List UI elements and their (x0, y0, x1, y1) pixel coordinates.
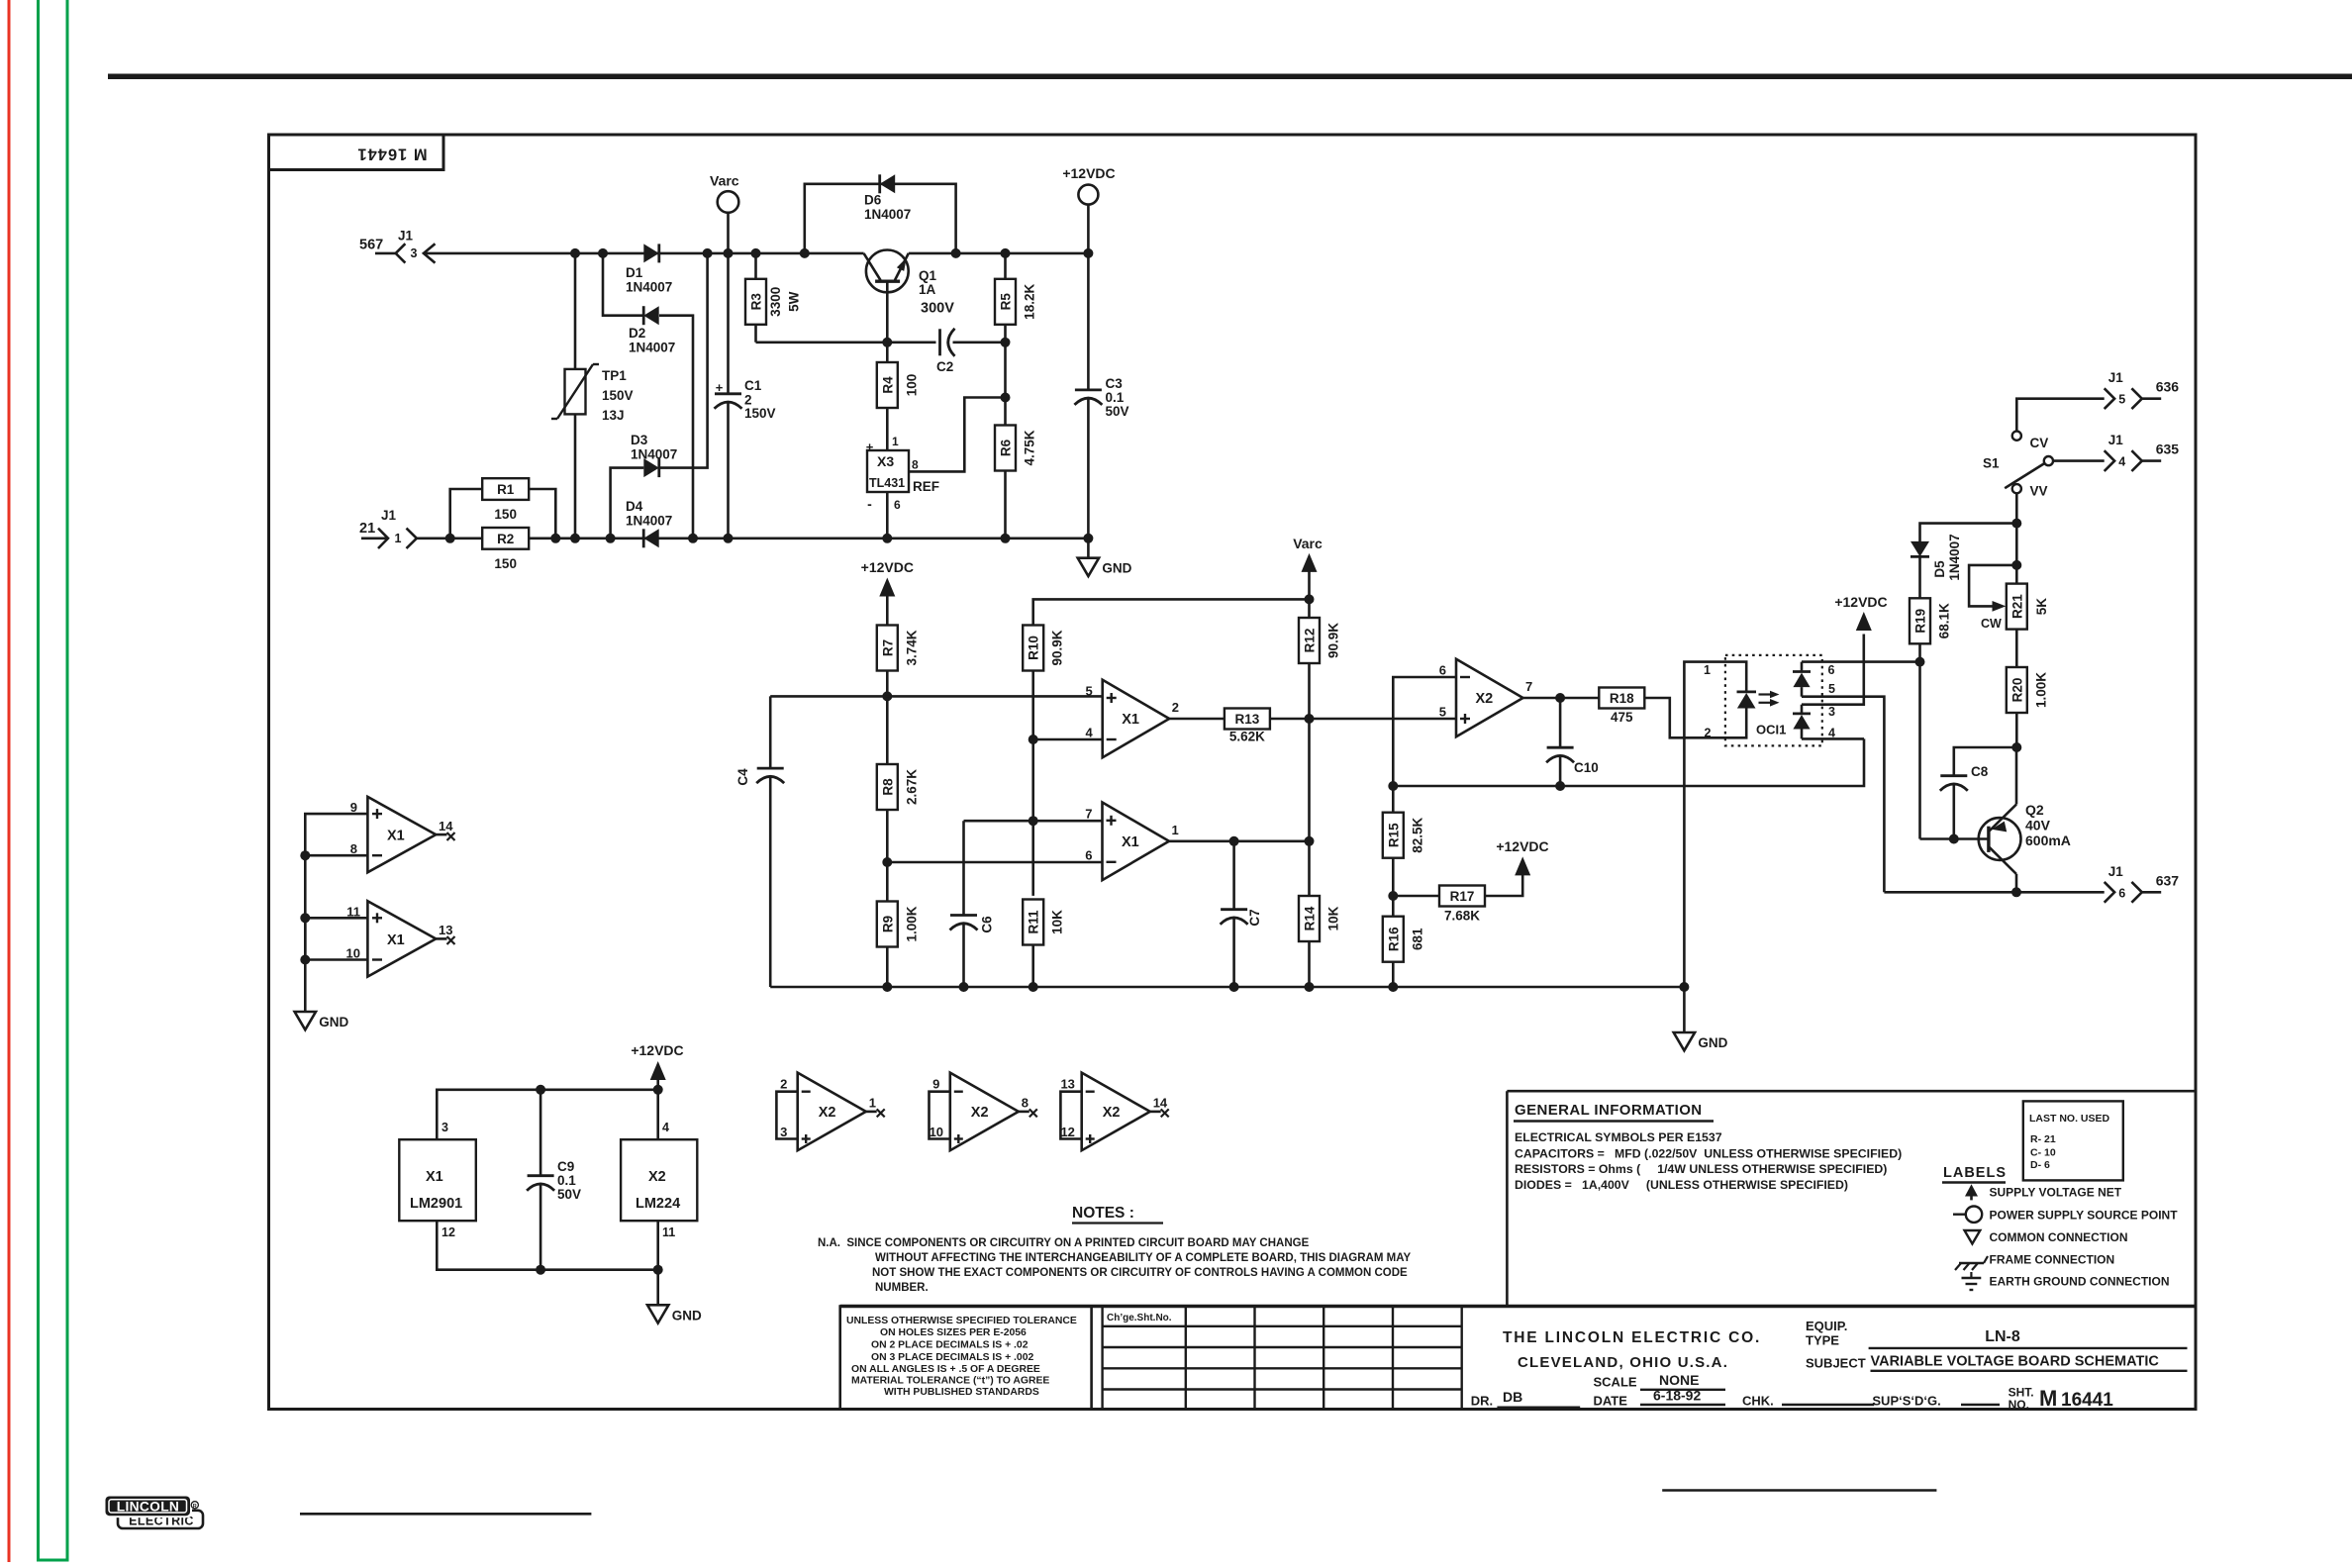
IC X2 LM224 power block (621, 1139, 697, 1221)
wire: X1b pin 6 row (887, 861, 1102, 864)
svg-text:14: 14 (439, 819, 453, 833)
connector J1 pin 6, net 637 (2105, 882, 2114, 903)
wire: OCI1 pin 5 to output row (1802, 697, 1884, 893)
svg-text:COMMON CONNECTION: COMMON CONNECTION (1990, 1230, 2128, 1244)
junction (882, 857, 892, 867)
svg-text:R10: R10 (1027, 636, 1041, 660)
wire: power rail bottom (437, 1221, 657, 1270)
svg-text:8: 8 (912, 458, 919, 472)
general information box (1506, 1091, 1509, 1306)
svg-text:1N4007: 1N4007 (629, 341, 675, 355)
junction (703, 248, 713, 258)
svg-text:FRAME CONNECTION: FRAME CONNECTION (1990, 1253, 2115, 1267)
svg-text:J1: J1 (2108, 864, 2124, 879)
wire: to ground (656, 1270, 659, 1306)
svg-text:Varc: Varc (1293, 536, 1323, 551)
wire: R12/R14 column (1308, 599, 1311, 987)
svg-text:-: - (867, 496, 872, 512)
svg-text:5.62K: 5.62K (1229, 730, 1265, 744)
wire: D2 branch (603, 253, 643, 316)
junction (1305, 836, 1315, 846)
resistor R5 (995, 279, 1016, 325)
wire: X1b output row (1169, 839, 1310, 842)
wire: C2 right to R5/R6 node (953, 341, 1006, 343)
wire: CV contact to J1-5 (2016, 399, 2104, 432)
svg-text:14: 14 (1153, 1096, 1168, 1111)
svg-text:GENERAL INFORMATION: GENERAL INFORMATION (1515, 1102, 1703, 1119)
junction (1305, 982, 1315, 992)
legend: common connection (1965, 1230, 1981, 1244)
svg-text:3: 3 (411, 246, 418, 260)
wire: R5/R6 column (1004, 253, 1007, 539)
resistor R3 (745, 279, 766, 325)
photodiode (OCI1 upper, pins 6-5) (1793, 670, 1811, 673)
varistor TP1 (565, 369, 586, 415)
svg-text:2.67K: 2.67K (904, 769, 919, 805)
svg-text:3: 3 (441, 1121, 448, 1134)
resistor R16 (1383, 917, 1404, 962)
junction (598, 248, 608, 258)
junction (724, 534, 734, 543)
junction (653, 1265, 663, 1275)
legend: supply voltage net (1965, 1184, 1978, 1196)
wire: TP1 column (574, 253, 577, 539)
svg-text:5K: 5K (2034, 598, 2049, 616)
capacitor C6 (950, 914, 977, 917)
op-amp X1 spare gate (pins 11,10 out 13) (367, 901, 436, 976)
optocoupler OCI1 outline (dotted) (1725, 655, 1822, 746)
svg-text:4.75K: 4.75K (1023, 430, 1037, 465)
svg-text:CW: CW (1981, 617, 2002, 631)
svg-text:21: 21 (359, 521, 375, 537)
svg-text:R7: R7 (880, 639, 895, 656)
svg-text:DR.: DR. (1471, 1394, 1493, 1409)
junction (724, 248, 734, 258)
wire: X1 spare gate A inputs (305, 814, 367, 855)
wire: X3 pin 6 to bottom rail (886, 492, 889, 539)
svg-text:C4: C4 (735, 768, 750, 786)
svg-text:5: 5 (1085, 684, 1092, 699)
junction (1001, 248, 1011, 258)
svg-text:681: 681 (1410, 928, 1424, 950)
svg-text:M 16441: M 16441 (356, 146, 427, 163)
svg-text:+12VDC: +12VDC (861, 559, 914, 575)
wire: power rail top (437, 1090, 657, 1139)
svg-text:J1: J1 (398, 229, 414, 244)
svg-text:1: 1 (892, 435, 899, 448)
svg-text:40V: 40V (2025, 818, 2051, 833)
resistor R20 (2007, 667, 2027, 713)
resistor R1 (482, 478, 529, 500)
capacitor C7 (1221, 908, 1247, 911)
svg-text:ON ALL ANGLES IS + .5 OF: ON ALL ANGLES IS + .5 OF A DEGREE (851, 1364, 1040, 1375)
svg-text:D6: D6 (864, 193, 882, 208)
wire: R7-R8 column (886, 671, 889, 863)
wire: OCI1 LED input loop (pins 1-2) (1684, 662, 1746, 738)
wire: tied inputs (1060, 1092, 1081, 1139)
svg-text:R20: R20 (2009, 678, 2024, 703)
svg-text:C9: C9 (557, 1159, 574, 1174)
svg-text:567: 567 (359, 238, 383, 253)
diode D3 (643, 458, 659, 477)
svg-text:R5: R5 (999, 293, 1014, 311)
wire: C7 branch lower (1232, 918, 1235, 987)
svg-text:+: + (866, 440, 874, 454)
capacitor C4 (757, 767, 784, 770)
svg-text:C1: C1 (744, 378, 762, 393)
junction (536, 1265, 545, 1275)
junction (536, 1085, 545, 1095)
wire: tied inputs (930, 1092, 950, 1139)
wire: Q2 emitter to node (2015, 747, 2018, 805)
wire: VV to R21 (2015, 493, 2018, 583)
resistor R15 (1383, 813, 1404, 858)
ground GND (spare gates) (295, 1012, 316, 1029)
junction (882, 534, 892, 543)
wire: X1a output to R13 (1169, 718, 1225, 721)
junction (570, 248, 580, 258)
op-amp X2 (main) (1456, 659, 1523, 737)
legend: earth ground connection (1970, 1272, 1972, 1278)
svg-text:150V: 150V (602, 388, 634, 403)
junction (1555, 781, 1565, 791)
diode D6 (880, 174, 896, 193)
diode D2 (643, 306, 659, 325)
wire: X1a pin 5 row (770, 695, 1102, 698)
svg-text:TL431: TL431 (869, 476, 905, 490)
svg-text:GND: GND (319, 1015, 348, 1029)
resistor R14 (1299, 896, 1320, 941)
wire: +12VDC to R7 (886, 596, 889, 626)
wire: OCI1 pin 4 rail (1802, 737, 1864, 740)
svg-text:6: 6 (1085, 847, 1092, 862)
svg-text:LINCOLN: LINCOLN (117, 1500, 179, 1515)
junction (688, 534, 698, 543)
wire: C10 lower (1559, 755, 1562, 786)
rule lower right (1662, 1489, 1936, 1492)
svg-text:NOTES :: NOTES : (1072, 1205, 1134, 1222)
svg-text:R14: R14 (1303, 906, 1318, 931)
wire: C6 branch lower (962, 924, 965, 987)
junction (1305, 594, 1315, 604)
svg-text:R9: R9 (880, 916, 895, 932)
svg-text:13J: 13J (602, 408, 625, 423)
svg-text:GND: GND (1102, 561, 1131, 576)
svg-text:SUBJECT: SUBJECT (1806, 1356, 1866, 1371)
wire: Varc / C1 column upper (727, 213, 730, 394)
ground GND (power pins) (647, 1305, 668, 1323)
svg-text:+12VDC: +12VDC (631, 1042, 683, 1058)
svg-text:NUMBER.: NUMBER. (875, 1282, 929, 1294)
svg-text:DB: DB (1503, 1389, 1522, 1405)
svg-text:X1: X1 (387, 829, 405, 844)
op-amp X1 spare gate (pins 9,8 out 14) (367, 797, 436, 872)
IC X1 LM2901 power block (399, 1139, 476, 1221)
wire: C10 upper (1559, 698, 1562, 747)
wire: ground bus (770, 986, 1684, 989)
svg-text:X1: X1 (1122, 712, 1139, 728)
svg-text:GND: GND (1698, 1035, 1727, 1050)
svg-text:50V: 50V (557, 1187, 581, 1202)
wire: bus to ground (1683, 987, 1686, 1032)
junction (1229, 836, 1239, 846)
svg-text:GND: GND (672, 1308, 702, 1323)
svg-text:LABELS: LABELS (1943, 1165, 2007, 1181)
svg-text:5: 5 (1828, 682, 1835, 696)
wire: R10/R11 column (1031, 671, 1034, 896)
svg-text:R19: R19 (1913, 609, 1928, 634)
svg-text:EARTH GROUND CONNECTION: EARTH GROUND CONNECTION (1990, 1275, 2170, 1289)
svg-text:C10: C10 (1574, 760, 1599, 775)
junction (1388, 982, 1398, 992)
svg-text:OCI1: OCI1 (1756, 723, 1786, 737)
junction (1388, 781, 1398, 791)
svg-text:82.5K: 82.5K (1410, 817, 1424, 852)
svg-text:R15: R15 (1386, 823, 1401, 847)
wire: C1 column lower (727, 402, 730, 539)
svg-text:150: 150 (494, 556, 517, 571)
svg-text:ELECTRICAL SYMBOLS PER E153: ELECTRICAL SYMBOLS PER E1537 (1515, 1130, 1722, 1144)
wire: Q1 base to C2 node (886, 281, 889, 343)
wire: X2 output to R18 (1523, 697, 1600, 700)
wire: tied inputs (776, 1092, 797, 1139)
junction (1001, 534, 1011, 543)
svg-text:12: 12 (1060, 1125, 1074, 1139)
change sheet grid (1101, 1307, 1103, 1410)
svg-text:+: + (716, 380, 724, 395)
wire: C8 to Q2 base row (1953, 784, 1956, 839)
svg-text:90.9K: 90.9K (1326, 623, 1341, 658)
LED inside OCI1 (1737, 691, 1757, 694)
svg-text:636: 636 (2156, 379, 2180, 395)
svg-text:3.74K: 3.74K (904, 630, 919, 665)
svg-text:0.1: 0.1 (557, 1173, 576, 1188)
junction (800, 248, 810, 258)
resistor R13 (1225, 709, 1270, 730)
svg-text:LAST NO. USED: LAST NO. USED (2029, 1113, 2110, 1125)
wire: top rail from Q1 emitter to +12VDC node (909, 252, 1089, 255)
wire: D3 branch (611, 468, 644, 539)
wire: R21 to R20 (2015, 630, 2018, 667)
junction (606, 534, 616, 543)
svg-text:R11: R11 (1027, 910, 1041, 934)
junction (882, 691, 892, 701)
wire: D6 bypass loop (805, 184, 956, 253)
svg-text:R: R (193, 1504, 197, 1510)
resistor R2 (482, 528, 529, 549)
svg-text:3: 3 (1828, 705, 1835, 719)
svg-text:C3: C3 (1106, 376, 1124, 391)
wire: node to C8 (1954, 747, 2017, 776)
svg-text:X3: X3 (877, 453, 894, 469)
svg-text:DATE: DATE (1594, 1394, 1628, 1409)
ground GND (top section) (1078, 558, 1099, 576)
svg-text:ON 2 PLACE DECIMALS IS +: ON 2 PLACE DECIMALS IS + .02 (871, 1340, 1029, 1351)
svg-text:X2: X2 (1476, 691, 1494, 707)
svg-text:R12: R12 (1303, 629, 1318, 653)
legend: frame connection (1959, 1262, 1984, 1264)
capacitor C3 (1075, 388, 1102, 391)
wire: Varc to node (1308, 571, 1311, 600)
svg-text:7: 7 (1525, 679, 1532, 694)
op-amp X2 spare gate (pins 2,3 out 1) (798, 1073, 866, 1151)
last number used box (2023, 1101, 2123, 1180)
resistor R18 (1599, 688, 1644, 709)
svg-text:X2: X2 (971, 1105, 989, 1121)
svg-text:3300: 3300 (768, 287, 783, 317)
svg-text:C7: C7 (1247, 909, 1262, 926)
capacitor C1 (electrolytic) (715, 392, 741, 395)
photodiode (OCI1 lower, pins 3-4) (1793, 713, 1811, 716)
junction (1001, 393, 1011, 403)
junction (300, 955, 310, 965)
svg-text:+12VDC: +12VDC (1496, 838, 1548, 854)
op-amp X2 spare gate (pins 9,10 out 8) (950, 1073, 1019, 1151)
capacitor C2 (938, 329, 941, 355)
svg-text:ON 3 PLACE DECIMALS IS +: ON 3 PLACE DECIMALS IS + .002 (871, 1352, 1033, 1363)
wire: OCI1 pin 2 to ground bus (1683, 737, 1686, 987)
junction (2011, 887, 2021, 897)
wire: R19 to Q2 base (1918, 643, 1921, 838)
diode D4 (643, 529, 659, 547)
wire: C7 branch upper (1232, 841, 1235, 910)
svg-text:SUP‘S‘D‘G.: SUP‘S‘D‘G. (1872, 1394, 1940, 1409)
svg-text:C6: C6 (980, 916, 995, 933)
svg-text:1N4007: 1N4007 (626, 514, 672, 529)
svg-text:6-18-92: 6-18-92 (1653, 1388, 1701, 1404)
svg-text:NO.: NO. (2009, 1398, 2029, 1412)
svg-text:4: 4 (1085, 726, 1093, 740)
wire: VV node to D5 (1920, 524, 2017, 541)
svg-text:8: 8 (1022, 1096, 1029, 1111)
svg-text:1N4007: 1N4007 (626, 280, 672, 295)
junction (300, 850, 310, 860)
svg-text:X2: X2 (648, 1169, 666, 1185)
svg-text:LM224: LM224 (636, 1196, 680, 1212)
diode D5 (1911, 541, 1929, 557)
wire: R11 to bus (1031, 945, 1034, 988)
svg-text:90.9K: 90.9K (1050, 630, 1065, 665)
resistor R10 (1023, 626, 1043, 671)
svg-text:1: 1 (1172, 823, 1179, 837)
wire: spare gates ground bus (304, 855, 307, 1012)
svg-text:CAPACITORS = MFD (.022/50V: CAPACITORS = MFD (.022/50V UNLESS OTHERW… (1515, 1147, 1902, 1161)
svg-text:CHK.: CHK. (1742, 1394, 1774, 1409)
wire: R3 column (754, 253, 757, 343)
resistor R4 (877, 362, 898, 408)
Lincoln Electric logo (118, 1511, 203, 1528)
connector J1 pin 4, net 635 (2105, 450, 2114, 471)
capacitor C8 (1940, 774, 1967, 777)
junction (1229, 982, 1239, 992)
svg-text:150V: 150V (744, 406, 776, 421)
svg-text:4: 4 (662, 1121, 669, 1134)
potentiometer R21 (2007, 584, 2027, 630)
wire: S1 common to J1-4 (2053, 459, 2105, 462)
svg-text:1A: 1A (919, 282, 936, 297)
capacitor C10 (1547, 746, 1574, 749)
svg-text:100: 100 (905, 374, 920, 397)
svg-text:WITH PUBLISHED STANDARDS: WITH PUBLISHED STANDARDS (884, 1387, 1039, 1398)
svg-text:RESISTORS = Ohms ( 1/4W: RESISTORS = Ohms ( 1/4W UNLESS OTHERWISE… (1515, 1162, 1887, 1176)
svg-text:CLEVELAND, OHIO U.S.A.: CLEVELAND, OHIO U.S.A. (1518, 1354, 1728, 1371)
svg-text:1.00K: 1.00K (2033, 672, 2048, 708)
resistor R12 (1299, 618, 1320, 663)
svg-text:300V: 300V (921, 301, 954, 317)
wire: R21 wiper (1969, 565, 2016, 607)
svg-text:X1: X1 (426, 1169, 443, 1185)
transistor Q2 (1979, 818, 2021, 860)
wire: X2 pin 6 feedback (1393, 677, 1456, 786)
resistor R7 (877, 626, 898, 671)
svg-text:REF: REF (913, 479, 939, 494)
svg-text:12: 12 (441, 1225, 455, 1239)
svg-text:10K: 10K (1050, 910, 1065, 934)
junction (951, 248, 961, 258)
svg-text:R4: R4 (880, 376, 895, 394)
svg-text:9: 9 (932, 1077, 939, 1092)
svg-text:J1: J1 (2108, 433, 2124, 447)
supply arrow (879, 578, 895, 597)
svg-text:9: 9 (350, 800, 357, 815)
wire: R18 to OCI1 pin 2 (1644, 698, 1684, 737)
wire: Q2 collector down (2015, 874, 2018, 892)
svg-text:J1: J1 (2108, 370, 2124, 385)
svg-text:N.A. SINCE COMPONENTS OR CIRC: N.A. SINCE COMPONENTS OR CIRCUITRY ON A … (818, 1237, 1310, 1249)
wire: X1b pin 7 row (964, 820, 1103, 823)
svg-text:WITHOUT AFFECTING THE INTERCHA: WITHOUT AFFECTING THE INTERCHANGEABILITY… (875, 1252, 1411, 1264)
junction (959, 982, 969, 992)
svg-text:635: 635 (2156, 441, 2180, 457)
svg-text:13: 13 (439, 923, 452, 937)
junction (1555, 693, 1565, 703)
svg-text:D5: D5 (1932, 560, 1947, 578)
wire: +12VDC to C3 (1087, 205, 1090, 390)
wire: output row to J1-6 (1884, 891, 2104, 894)
svg-text:1.00K: 1.00K (904, 906, 919, 941)
svg-text:LM2901: LM2901 (410, 1196, 462, 1212)
svg-text:R16: R16 (1386, 927, 1401, 951)
svg-text:8: 8 (350, 841, 357, 856)
resistor R8 (877, 764, 898, 810)
svg-text:637: 637 (2156, 872, 2180, 888)
junction (1305, 714, 1315, 724)
wire: X3 REF pin 8 to R5/R6 node (909, 398, 1006, 472)
svg-text:1: 1 (1704, 663, 1711, 677)
svg-text:Varc: Varc (710, 173, 739, 189)
svg-text:VV: VV (2030, 484, 2048, 499)
supply arrow (650, 1061, 666, 1080)
svg-text:4: 4 (2118, 455, 2125, 469)
junction (550, 534, 560, 543)
svg-text:50V: 50V (1106, 404, 1129, 419)
wire: Q2 base lead (1920, 837, 1989, 840)
op-amp X2 spare gate (pins 13,12 out 14) (1082, 1073, 1150, 1151)
capacitor C9 (539, 1090, 542, 1176)
wire: R10 top to Varc node (1033, 599, 1310, 625)
svg-text:SCALE: SCALE (1594, 1375, 1637, 1390)
svg-text:3: 3 (780, 1125, 787, 1139)
capacitor C9 body (528, 1174, 554, 1177)
wire: R20 to node (2015, 713, 2018, 747)
wire: bottom rail from J1-1 to GND node (417, 537, 1089, 539)
svg-text:C- 10: C- 10 (2030, 1147, 2056, 1159)
svg-text:0.1: 0.1 (1106, 390, 1125, 405)
supply arrow (1515, 856, 1530, 875)
svg-text:1N4007: 1N4007 (864, 207, 911, 222)
wire: R1 parallel loop (450, 489, 483, 539)
svg-text:NONE: NONE (1659, 1372, 1699, 1388)
